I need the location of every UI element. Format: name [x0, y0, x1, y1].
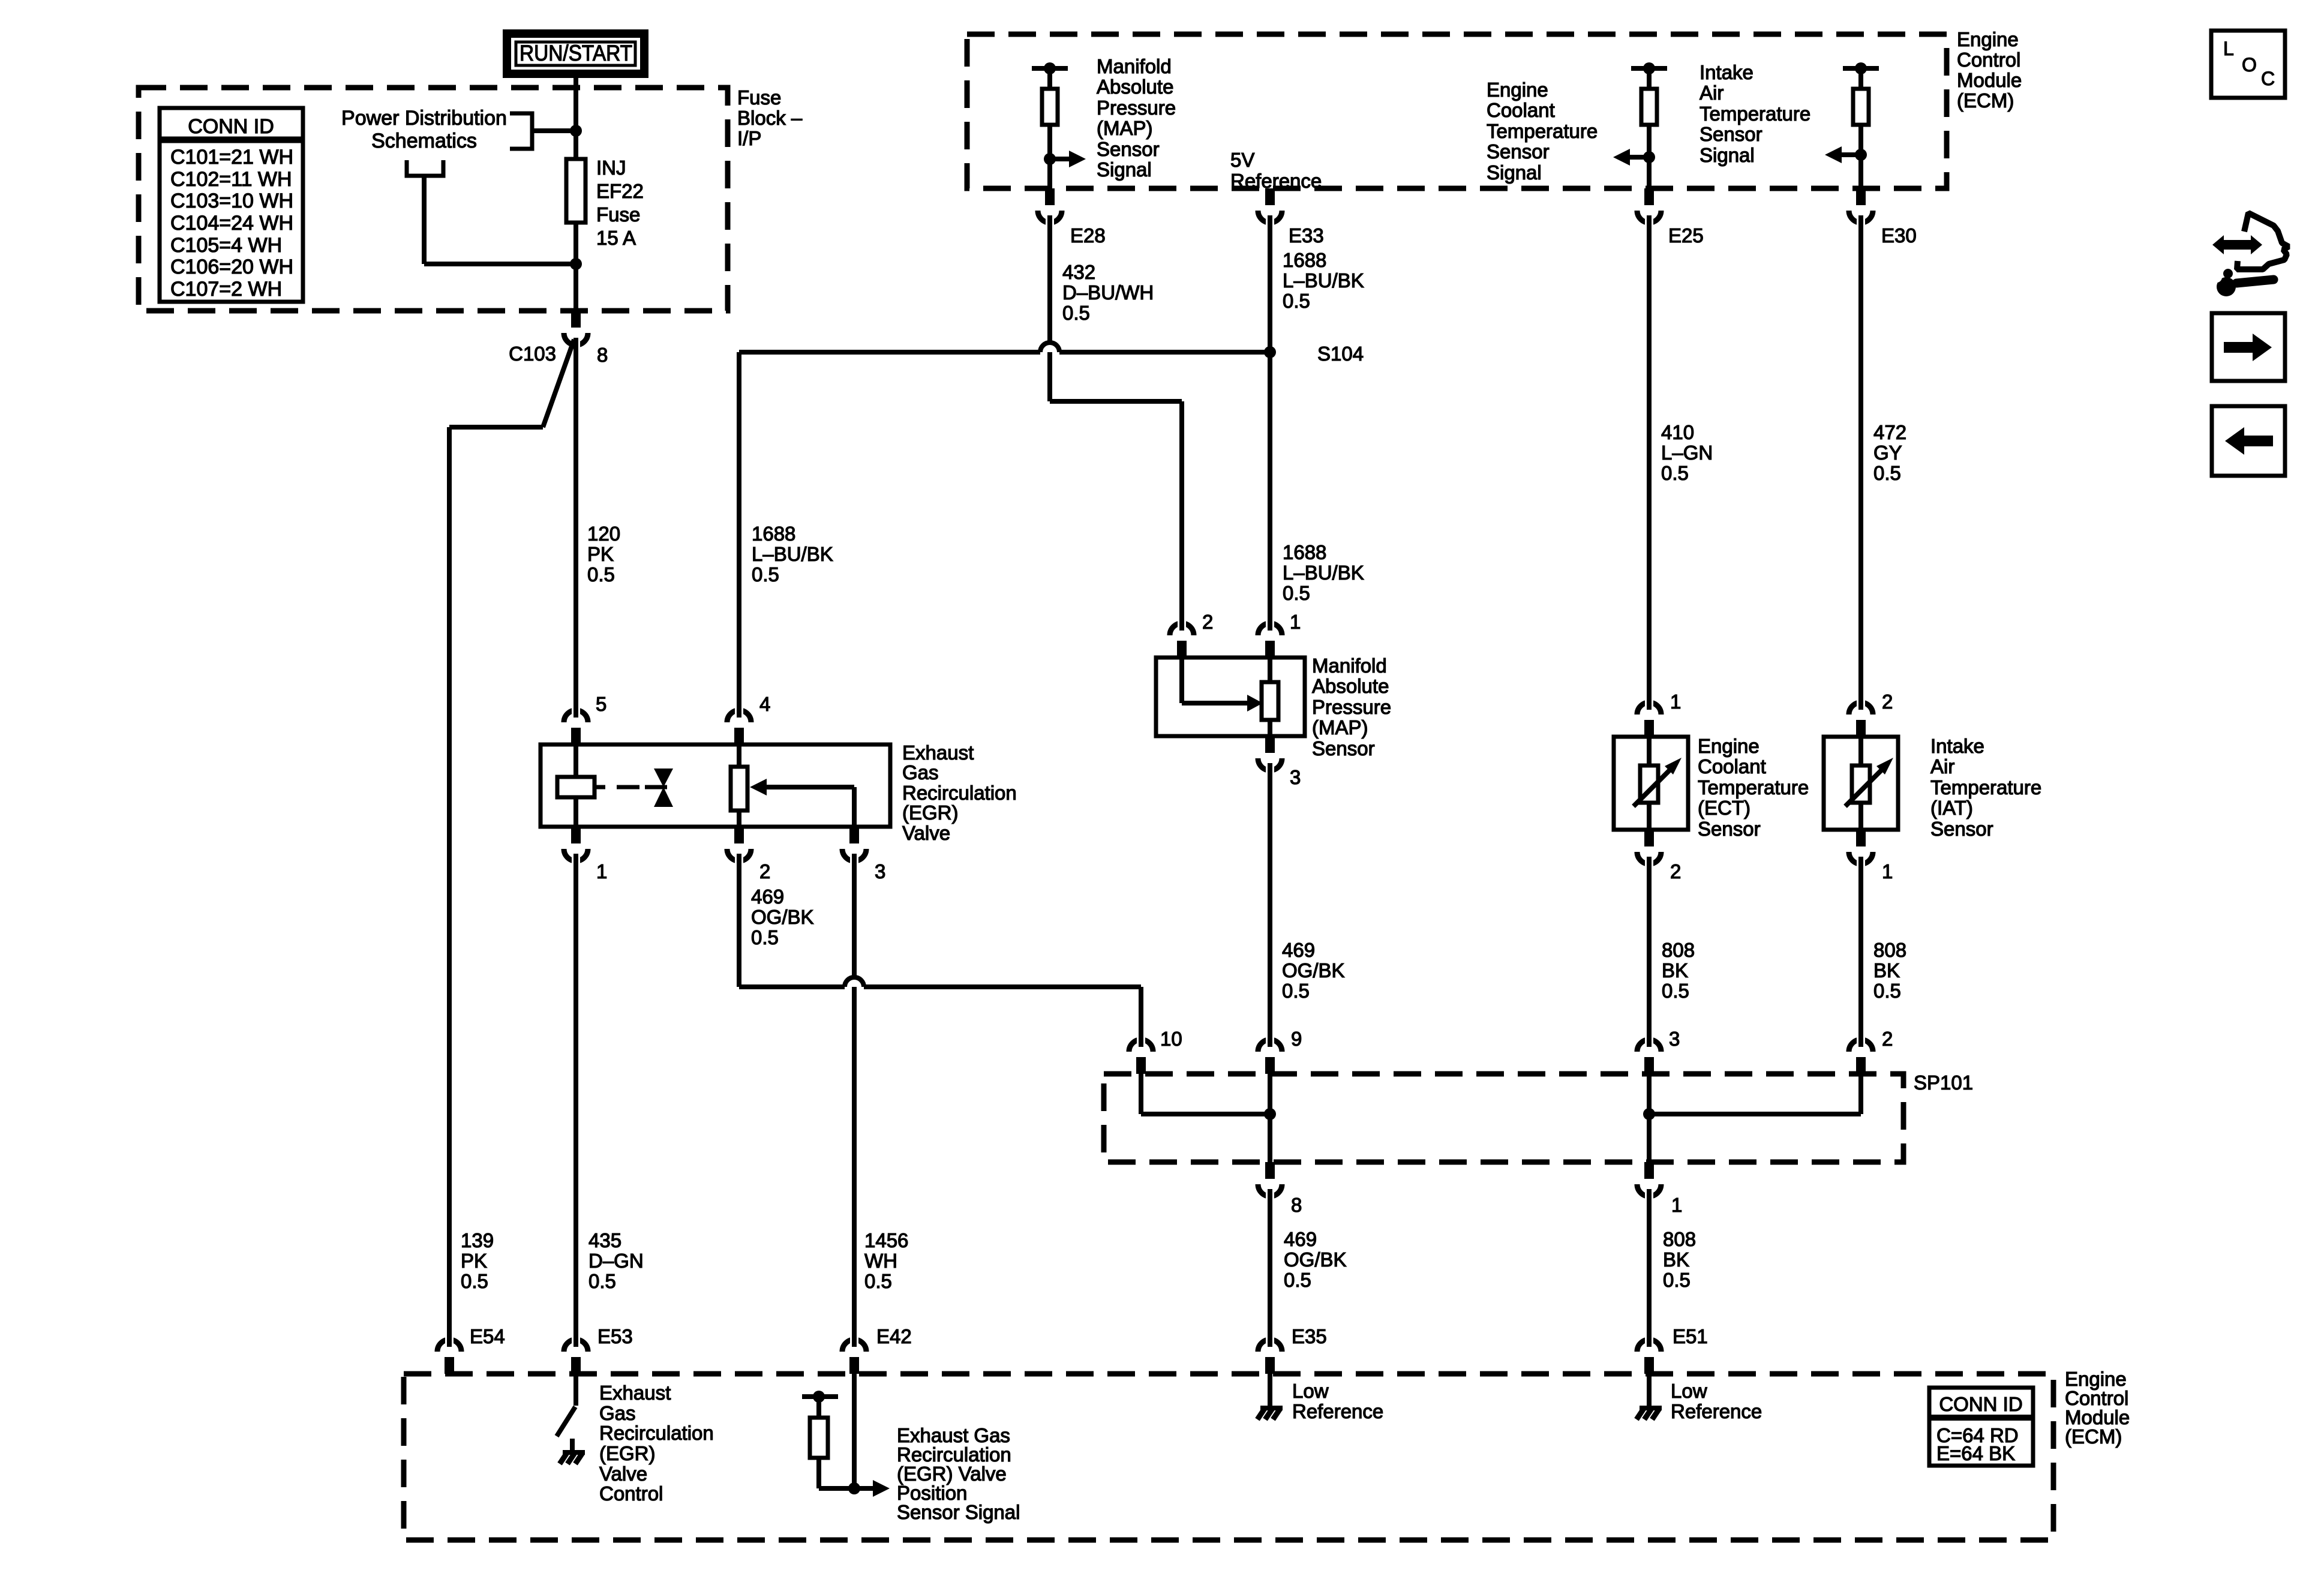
- svg-text:C102=11 WH: C102=11 WH: [170, 168, 292, 191]
- svg-text:Schematics: Schematics: [371, 130, 477, 152]
- svg-text:Valve: Valve: [902, 822, 950, 844]
- connector EGR pin 1: [564, 827, 588, 864]
- svg-text:0.5: 0.5: [1873, 462, 1901, 484]
- svg-text:2: 2: [1882, 691, 1893, 713]
- svg-text:OG/BK: OG/BK: [751, 906, 814, 928]
- svg-text:0.5: 0.5: [864, 1270, 892, 1292]
- svg-text:Absolute: Absolute: [1312, 675, 1389, 697]
- svg-text:L–GN: L–GN: [1661, 442, 1713, 464]
- svg-text:0.5: 0.5: [751, 926, 779, 948]
- CONN ID table (fuse block): [160, 108, 303, 302]
- wire stub to resistor: [816, 1397, 821, 1418]
- wire IAT internal upper: [1858, 737, 1863, 766]
- arrow EGR position signal: [848, 1480, 890, 1497]
- wire IAT signal lower: [1858, 125, 1863, 188]
- svg-text:PK: PK: [587, 543, 614, 565]
- svg-text:120: 120: [587, 523, 620, 545]
- label Manifold Absolute Pressure (MAP) Sensor: [1312, 655, 1391, 760]
- wire SP101 pin3-1 through: [1647, 1074, 1652, 1162]
- svg-text:Sensor: Sensor: [1312, 737, 1375, 760]
- svg-text:Low: Low: [1671, 1380, 1707, 1402]
- wire EGR coil upper: [574, 745, 578, 777]
- label Engine Coolant Temperature Sensor Signal: [1487, 79, 1598, 184]
- wire EGR control stub: [574, 1374, 578, 1406]
- connector IAT pin 2: [1849, 700, 1873, 737]
- Engine Control Module (ECM) bottom dashed box: [404, 1374, 2053, 1540]
- svg-text:1688: 1688: [1283, 541, 1326, 563]
- svg-text:Valve: Valve: [599, 1463, 647, 1485]
- svg-text:3: 3: [1290, 766, 1301, 788]
- label Low Reference right: [1671, 1380, 1762, 1422]
- wire E33 to MAP pin 1: [1268, 224, 1272, 621]
- splice pack SP101 dashed box: [1104, 1074, 1903, 1162]
- connector E25: [1637, 188, 1661, 226]
- MAP sensor box: [1156, 658, 1305, 736]
- label 1688 L-BU/BK 0.5 (EGR 4): [752, 523, 833, 586]
- wire resistor down: [816, 1458, 821, 1488]
- arrow EGR position wiper: [750, 779, 854, 795]
- svg-text:432: 432: [1062, 261, 1095, 283]
- svg-text:Fuse: Fuse: [737, 86, 781, 109]
- svg-text:1: 1: [1670, 691, 1681, 713]
- ECT sensor box: [1614, 737, 1688, 830]
- junction on fuse wire (top): [570, 125, 582, 137]
- svg-text:E42: E42: [876, 1325, 912, 1347]
- next page arrow box: [2212, 313, 2285, 381]
- svg-text:Low: Low: [1292, 1380, 1329, 1402]
- svg-text:Manifold: Manifold: [1312, 655, 1387, 677]
- svg-text:3: 3: [1669, 1028, 1680, 1050]
- svg-text:Signal: Signal: [1097, 158, 1152, 181]
- svg-text:8: 8: [597, 344, 608, 366]
- svg-text:E35: E35: [1292, 1325, 1327, 1347]
- svg-text:0.5: 0.5: [1283, 582, 1310, 604]
- wire SP101 pin9-8 through: [1268, 1074, 1272, 1162]
- arrow MAP sensor signal: [1044, 151, 1086, 167]
- connector EGR pin 3: [842, 827, 866, 864]
- svg-text:Fuse: Fuse: [596, 203, 640, 226]
- bracket right of Power Distribution: [510, 113, 532, 149]
- U bracket below Schematics: [407, 160, 443, 176]
- connector SP101 pin 9: [1258, 1037, 1282, 1074]
- svg-text:D–GN: D–GN: [588, 1250, 644, 1272]
- label 808 BK 0.5 (SP 3): [1662, 939, 1695, 1002]
- label INJ EF22 Fuse 15 A: [596, 157, 644, 249]
- wire E30 to IAT pin 2: [1858, 224, 1863, 700]
- label Engine Coolant Temperature (ECT) Sensor: [1698, 735, 1809, 840]
- svg-text:C103: C103: [509, 343, 556, 365]
- EGR solenoid coil: [557, 777, 594, 797]
- svg-text:S104: S104: [1317, 343, 1364, 365]
- connector E30: [1849, 188, 1873, 226]
- svg-text:INJ: INJ: [596, 157, 626, 179]
- svg-text:Absolute: Absolute: [1097, 76, 1173, 98]
- svg-text:L–BU/BK: L–BU/BK: [1283, 562, 1364, 584]
- svg-text:472: 472: [1873, 421, 1906, 443]
- svg-text:Sensor: Sensor: [1097, 138, 1160, 160]
- wire SP1 to E51: [1647, 1199, 1652, 1338]
- svg-text:C101=21 WH: C101=21 WH: [170, 146, 293, 169]
- wire SP101 pin10 internal: [1139, 1074, 1143, 1114]
- wire IAT signal upper: [1858, 68, 1863, 89]
- wire ECT internal lower: [1647, 803, 1652, 830]
- wire IAT1 to SP101 pin 2: [1858, 866, 1863, 1037]
- previous page arrow box: [2212, 406, 2285, 476]
- svg-text:(IAT): (IAT): [1930, 797, 1973, 819]
- svg-text:1: 1: [1882, 860, 1893, 882]
- svg-text:OG/BK: OG/BK: [1284, 1248, 1347, 1271]
- connector SP101 pin 10: [1129, 1037, 1153, 1074]
- connector E33: [1258, 188, 1282, 226]
- MAP signal internal stub: [1032, 62, 1068, 74]
- svg-text:808: 808: [1663, 1228, 1696, 1250]
- connector SP101 pin 8: [1258, 1162, 1282, 1199]
- svg-text:BK: BK: [1873, 959, 1900, 981]
- svg-text:5: 5: [596, 693, 606, 715]
- svg-text:2: 2: [759, 860, 770, 882]
- wire C103 to EGR pin 5: [574, 347, 578, 708]
- svg-text:GY: GY: [1873, 442, 1902, 464]
- splice S104: [1264, 346, 1276, 358]
- label Power Distribution Schematics: [341, 107, 507, 152]
- svg-text:0.5: 0.5: [588, 1270, 616, 1292]
- label 1456 WH 0.5: [864, 1229, 908, 1292]
- svg-text:1688: 1688: [1283, 249, 1326, 271]
- svg-text:808: 808: [1662, 939, 1695, 961]
- diagnostic icon (part outline): [2237, 213, 2289, 269]
- svg-text:1: 1: [1671, 1194, 1682, 1216]
- wire EGR2 down: [737, 863, 741, 987]
- svg-text:(EGR): (EGR): [902, 801, 959, 824]
- wire E25 to ECT pin 1: [1647, 224, 1652, 700]
- junction on fuse wire (lower): [570, 258, 582, 270]
- wire S104 down to EGR pin 4: [737, 352, 741, 708]
- wire bracket to fuse wire: [532, 128, 576, 133]
- connector SP101 pin 3: [1637, 1037, 1661, 1074]
- coil stub: [594, 785, 605, 789]
- svg-text:(MAP): (MAP): [1312, 716, 1368, 739]
- svg-text:C107=2 WH: C107=2 WH: [170, 278, 282, 301]
- svg-text:Temperature: Temperature: [1700, 103, 1810, 125]
- label Fuse Block - I/P: [737, 86, 803, 149]
- svg-text:808: 808: [1873, 939, 1906, 961]
- svg-text:C106=20 WH: C106=20 WH: [170, 256, 293, 278]
- svg-text:469: 469: [751, 885, 784, 908]
- wire to MAP pin 2: [1179, 401, 1184, 621]
- svg-text:BK: BK: [1662, 959, 1688, 981]
- svg-text:E25: E25: [1668, 224, 1704, 247]
- wire E28 jog right: [1050, 399, 1182, 404]
- connector E42: [842, 1337, 866, 1374]
- label Exhaust Gas Recirculation (EGR) Valve Position Sensor Signal: [897, 1424, 1020, 1523]
- ECT signal internal stub: [1631, 62, 1667, 74]
- wire ECT signal upper: [1647, 68, 1652, 89]
- label Intake Air Temperature Sensor Signal: [1700, 61, 1810, 166]
- svg-text:Signal: Signal: [1487, 161, 1542, 184]
- svg-text:9: 9: [1291, 1028, 1302, 1050]
- connector EGR pin 2: [727, 827, 751, 864]
- svg-text:E28: E28: [1070, 224, 1106, 247]
- switch blade EGR control: [557, 1407, 575, 1436]
- label 1688 L-BU/BK 0.5 (E33): [1283, 249, 1364, 312]
- connector SP101 pin 1: [1637, 1162, 1661, 1199]
- wire EGR pin 3 internal: [852, 787, 857, 827]
- resistor MAP signal: [1042, 89, 1058, 125]
- svg-text:0.5: 0.5: [752, 563, 779, 586]
- svg-text:Air: Air: [1930, 755, 1954, 778]
- junction SP101 left: [1264, 1108, 1276, 1120]
- wire ECT internal upper: [1647, 737, 1652, 766]
- svg-text:2: 2: [1202, 611, 1213, 633]
- label Exhaust Gas Recirculation (EGR) Valve: [902, 742, 1017, 844]
- wire E28 down: [1047, 224, 1052, 401]
- svg-text:Reference: Reference: [1230, 170, 1322, 192]
- svg-text:Temperature: Temperature: [1698, 776, 1809, 798]
- wire EGR coil lower: [574, 797, 578, 827]
- wire low ref left: [1268, 1374, 1272, 1406]
- ground EGR valve control: [560, 1452, 585, 1464]
- svg-text:0.5: 0.5: [1062, 302, 1090, 324]
- wire MAP pin 3 down: [1268, 773, 1272, 1037]
- arrow MAP internal: [1182, 695, 1263, 712]
- svg-text:Recirculation: Recirculation: [599, 1422, 714, 1444]
- svg-text:435: 435: [588, 1229, 621, 1251]
- male pin diagonal at C103: [543, 340, 574, 427]
- svg-text:Pressure: Pressure: [1097, 97, 1176, 119]
- svg-text:Temperature: Temperature: [1487, 120, 1598, 142]
- wire MAP internal pin1 upper: [1268, 658, 1272, 682]
- RUN/START box: [503, 29, 648, 78]
- wire EGR control ground stub: [570, 1439, 575, 1451]
- svg-text:0.5: 0.5: [1873, 980, 1901, 1002]
- svg-text:(ECT): (ECT): [1698, 797, 1750, 819]
- svg-text:Control: Control: [1957, 49, 2020, 71]
- wire down to SP101 pin 10: [1139, 987, 1143, 1037]
- wire SP101 bus left: [1141, 1112, 1270, 1116]
- diagnostic icon (wrench): [2211, 269, 2274, 296]
- svg-text:(MAP): (MAP): [1097, 117, 1153, 139]
- svg-text:Reference: Reference: [1671, 1400, 1762, 1422]
- wire EGR pot upper: [737, 745, 741, 767]
- svg-text:410: 410: [1661, 421, 1694, 443]
- Engine Control Module (ECM) top dashed box: [967, 34, 1947, 188]
- svg-text:Intake: Intake: [1930, 735, 1984, 757]
- svg-text:Engine: Engine: [1487, 79, 1548, 101]
- svg-text:(EGR): (EGR): [599, 1442, 656, 1464]
- svg-text:Block –: Block –: [737, 107, 803, 129]
- svg-text:1456: 1456: [864, 1229, 908, 1251]
- svg-text:3: 3: [875, 860, 885, 882]
- label 139 PK 0.5: [461, 1229, 494, 1292]
- resistor ECT signal: [1641, 89, 1657, 125]
- connector MAP pin 2: [1170, 620, 1194, 658]
- connector ECT pin 2: [1637, 830, 1661, 867]
- wire E54 branch down: [447, 427, 452, 1338]
- connector MAP pin 1: [1258, 620, 1282, 658]
- svg-text:0.5: 0.5: [1661, 462, 1689, 484]
- fuse INJ EF22 15A: [566, 159, 585, 223]
- svg-text:C: C: [2261, 68, 2275, 89]
- svg-text:2: 2: [1670, 860, 1681, 882]
- svg-text:Sensor: Sensor: [1700, 123, 1762, 145]
- wire IAT internal lower: [1858, 803, 1863, 830]
- svg-text:Exhaust: Exhaust: [599, 1382, 671, 1404]
- svg-text:Gas: Gas: [902, 761, 939, 784]
- svg-text:Exhaust: Exhaust: [902, 742, 974, 764]
- wire MAP signal lower: [1047, 125, 1052, 188]
- svg-text:Sensor: Sensor: [1930, 818, 1993, 840]
- IAT signal internal stub: [1843, 62, 1879, 74]
- svg-text:L–BU/BK: L–BU/BK: [1283, 269, 1364, 292]
- label Exhaust Gas Recirculation (EGR) Valve Control: [599, 1382, 714, 1505]
- wire MAP internal pin2: [1179, 658, 1184, 703]
- wire EGR pot lower: [737, 810, 741, 827]
- svg-text:C103=10 WH: C103=10 WH: [170, 190, 293, 212]
- svg-text:E53: E53: [597, 1325, 633, 1347]
- svg-text:L: L: [2223, 38, 2234, 59]
- svg-text:Temperature: Temperature: [1930, 776, 2041, 798]
- connector C103 pin 8: [564, 311, 588, 348]
- CONN ID table (ECM): [1929, 1388, 2033, 1466]
- svg-text:Control: Control: [599, 1482, 663, 1505]
- wire U-bracket down: [422, 176, 427, 264]
- svg-text:469: 469: [1284, 1228, 1317, 1250]
- svg-text:10: 10: [1160, 1028, 1182, 1050]
- svg-text:0.5: 0.5: [1282, 980, 1310, 1002]
- svg-text:15 A: 15 A: [596, 227, 636, 249]
- connector SP101 pin 2: [1849, 1037, 1873, 1074]
- wire EGR3 to E42: [852, 863, 857, 1338]
- wire SP8 to E35: [1268, 1199, 1272, 1338]
- svg-text:469: 469: [1282, 939, 1315, 961]
- wire EGR2 to SP101 pin 10: [739, 977, 1141, 987]
- wire EGR1 to E53: [574, 863, 578, 1338]
- connector E53: [564, 1337, 588, 1374]
- svg-text:Recirculation: Recirculation: [902, 782, 1017, 804]
- connector MAP pin 3: [1258, 736, 1282, 773]
- svg-text:Sensor: Sensor: [1698, 818, 1761, 840]
- resistor IAT signal: [1853, 89, 1869, 125]
- fuse block I/P dashed box: [139, 88, 728, 311]
- svg-text:BK: BK: [1663, 1248, 1689, 1271]
- svg-text:WH: WH: [864, 1250, 897, 1272]
- wire MAP signal upper: [1047, 68, 1052, 89]
- svg-text:Signal: Signal: [1700, 144, 1755, 166]
- svg-text:PK: PK: [461, 1250, 487, 1272]
- svg-text:2: 2: [1882, 1028, 1893, 1050]
- potentiometer EGR: [731, 767, 747, 810]
- label 5V Reference: [1230, 149, 1322, 192]
- wire SP101 bus right: [1649, 1112, 1861, 1116]
- wire low ref right: [1647, 1374, 1652, 1406]
- svg-text:139: 139: [461, 1229, 494, 1251]
- arrow IAT sensor signal: [1825, 146, 1867, 163]
- wire to fuse wire (lower): [424, 262, 576, 266]
- svg-text:(ECM): (ECM): [1957, 89, 2014, 112]
- svg-text:1: 1: [1290, 611, 1301, 633]
- wire RUN/START to C103: [574, 78, 578, 311]
- svg-text:EF22: EF22: [596, 180, 644, 202]
- ground low reference right: [1637, 1408, 1662, 1419]
- label 410 L-GN 0.5: [1661, 421, 1713, 484]
- wire ECT2 to SP101 pin 3: [1647, 866, 1652, 1037]
- svg-text:4: 4: [759, 693, 770, 715]
- EGR valve box: [541, 745, 890, 827]
- svg-text:CONN ID: CONN ID: [1939, 1393, 2022, 1415]
- svg-text:D–BU/WH: D–BU/WH: [1062, 281, 1154, 304]
- wire MAP internal pin1 lower: [1268, 720, 1272, 736]
- label 808 BK 0.5 (E51): [1663, 1228, 1696, 1291]
- label 472 GY 0.5: [1873, 421, 1906, 484]
- label 469 OG/BK 0.5 (EGR 2): [751, 885, 814, 948]
- svg-text:0.5: 0.5: [1284, 1269, 1311, 1291]
- wire resistor to junction: [819, 1486, 854, 1491]
- svg-text:Gas: Gas: [599, 1402, 636, 1424]
- svg-text:Reference: Reference: [1292, 1400, 1383, 1422]
- svg-text:E=64 BK: E=64 BK: [1936, 1442, 2015, 1464]
- junction SP101 right: [1643, 1108, 1655, 1120]
- valve symbol (bowtie): [654, 769, 673, 807]
- label 432 D-BU/WH 0.5: [1062, 261, 1154, 324]
- svg-text:0.5: 0.5: [1662, 980, 1689, 1002]
- svg-text:Coolant: Coolant: [1487, 99, 1555, 121]
- svg-text:Intake: Intake: [1700, 61, 1753, 83]
- resistor EGR position: [810, 1418, 828, 1458]
- svg-text:1: 1: [596, 860, 607, 882]
- connector E54: [437, 1337, 461, 1374]
- arrow ECT sensor signal: [1613, 149, 1655, 166]
- label 808 BK 0.5 (SP 2): [1873, 939, 1906, 1002]
- label Engine Control Module (ECM) bottom right: [2065, 1368, 2130, 1448]
- label Engine Control Module (ECM) top right: [1957, 28, 2022, 112]
- svg-text:5V: 5V: [1230, 149, 1254, 171]
- svg-text:0.5: 0.5: [587, 563, 615, 586]
- svg-text:SP101: SP101: [1914, 1071, 1973, 1094]
- svg-text:Power Distribution: Power Distribution: [341, 107, 507, 130]
- label Low Reference left: [1292, 1380, 1383, 1422]
- ground low reference left: [1257, 1408, 1283, 1419]
- connector IAT pin 1: [1849, 830, 1873, 867]
- svg-text:0.5: 0.5: [461, 1270, 488, 1292]
- svg-text:OG/BK: OG/BK: [1282, 959, 1345, 981]
- svg-text:Module: Module: [1957, 69, 2022, 91]
- connector EGR pin 4: [727, 707, 751, 745]
- svg-text:Sensor: Sensor: [1487, 140, 1550, 163]
- svg-text:E54: E54: [470, 1325, 505, 1347]
- wire E42 internal: [852, 1374, 857, 1488]
- internal 5V stub E42: [802, 1391, 838, 1403]
- dashed link: [617, 785, 667, 789]
- svg-text:Air: Air: [1700, 82, 1724, 104]
- label Manifold Absolute Pressure (MAP) Sensor Signal: [1097, 55, 1176, 181]
- label 469 OG/BK 0.5 (SP 9): [1282, 939, 1345, 1002]
- svg-text:O: O: [2242, 54, 2257, 76]
- label 469 OG/BK 0.5 (E35): [1284, 1228, 1347, 1291]
- svg-text:0.5: 0.5: [1283, 290, 1310, 312]
- wire horizontal to E54 branch: [449, 425, 543, 430]
- svg-text:Manifold: Manifold: [1097, 55, 1172, 77]
- thermistor IAT: [1845, 758, 1893, 806]
- potentiometer MAP: [1262, 682, 1278, 720]
- svg-text:(ECM): (ECM): [2065, 1425, 2122, 1448]
- label 120 PK 0.5: [587, 523, 620, 586]
- svg-text:Coolant: Coolant: [1698, 755, 1766, 778]
- svg-text:E33: E33: [1289, 224, 1324, 247]
- IAT sensor box: [1824, 737, 1898, 830]
- connector E35: [1258, 1337, 1282, 1374]
- svg-text:Pressure: Pressure: [1312, 696, 1391, 718]
- svg-text:E30: E30: [1881, 224, 1917, 247]
